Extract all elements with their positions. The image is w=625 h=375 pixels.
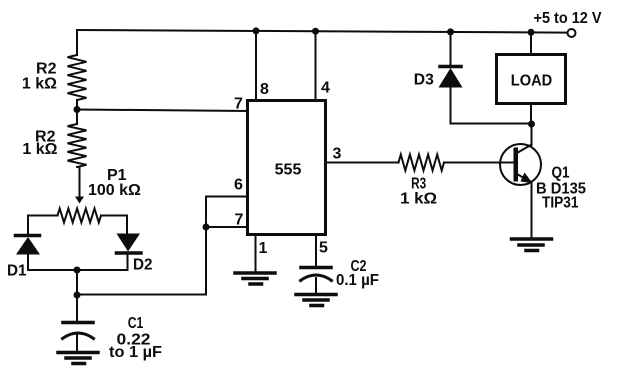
wire P1 left lead — [28, 216, 58, 235]
svg-text:100 kΩ: 100 kΩ — [88, 182, 141, 199]
wire diode bus to C1 node — [76, 270, 78, 295]
svg-text:1 kΩ: 1 kΩ — [22, 76, 57, 93]
wire pin 7 to R2 junction — [77, 110, 248, 112]
diode D2 (pointing down, cathode bar bottom) — [117, 234, 142, 271]
diode D3 (pointing up, cathode bar top) — [439, 67, 463, 88]
ground pin 1 — [235, 273, 275, 284]
node junction dot pin8 rail — [253, 27, 260, 34]
diode D1 (cathode bar top, pointing up) — [16, 236, 41, 271]
svg-text:5: 5 — [319, 240, 328, 257]
wire C1 top lead — [76, 295, 78, 321]
svg-text:7: 7 — [234, 96, 243, 113]
svg-text:to 1 µF: to 1 µF — [109, 344, 162, 361]
wire pin 7 stub — [206, 226, 246, 228]
svg-text:D2: D2 — [133, 257, 153, 274]
svg-text:3: 3 — [333, 146, 342, 163]
svg-text:1: 1 — [259, 240, 268, 257]
wire D3 bottom to collector node — [451, 88, 532, 124]
resistor R2 (upper) — [68, 55, 87, 100]
wire LOAD bottom lead — [530, 104, 532, 124]
potentiometer P1 — [58, 209, 102, 223]
wire R3 to base — [444, 162, 514, 164]
wire top supply rail — [77, 30, 567, 33]
svg-text:+5 to 12 V: +5 to 12 V — [534, 10, 602, 27]
LOAD box — [497, 55, 566, 104]
wire D1-D2 bottom bus — [28, 269, 128, 271]
svg-text:D1: D1 — [7, 263, 27, 280]
node junction dot pin4 rail — [312, 28, 319, 35]
svg-text:1 kΩ: 1 kΩ — [22, 141, 57, 158]
wiper arrow of P1 — [75, 167, 84, 204]
transistor Q1 — [500, 144, 541, 185]
wire LOAD top lead — [530, 32, 532, 53]
svg-text:8: 8 — [260, 81, 269, 98]
svg-text:C1: C1 — [128, 315, 144, 332]
node junction dot diode bus — [74, 267, 81, 274]
capacitor C2 — [301, 268, 332, 294]
wire C1 node to pins 6-7 — [77, 227, 206, 295]
node junction dot R2/R2/pin7 — [74, 106, 81, 113]
wire between R2 upper and R2 lower — [76, 100, 78, 124]
node junction dot LOAD rail — [528, 29, 535, 36]
ground C1 — [58, 353, 98, 364]
ground Q1 emitter — [512, 239, 552, 251]
svg-text:TIP31: TIP31 — [542, 195, 579, 212]
wire collector node to Q1 — [531, 124, 533, 145]
svg-text:LOAD: LOAD — [511, 73, 553, 90]
wire D3 top lead — [450, 32, 452, 65]
svg-text:4: 4 — [321, 80, 330, 97]
wire left branch top — [76, 30, 78, 55]
svg-text:555: 555 — [275, 162, 302, 179]
node junction dot D3 rail — [447, 28, 454, 35]
svg-text:6: 6 — [234, 177, 243, 194]
svg-text:D3: D3 — [414, 72, 434, 89]
resistor R2 (lower) — [68, 124, 87, 167]
capacitor C1 — [63, 323, 94, 352]
resistor R3 — [399, 155, 445, 171]
IC U1 555 timer body — [248, 101, 326, 235]
wire P1 right lead — [101, 216, 127, 234]
wire pin 8 to rail — [255, 31, 257, 100]
node junction dot C1 — [74, 292, 81, 299]
svg-text:Q1: Q1 — [552, 165, 570, 182]
svg-text:7: 7 — [235, 212, 244, 229]
wire pin 4 to rail — [315, 31, 317, 100]
wire emitter to ground — [531, 183, 533, 238]
ground C2 — [296, 295, 336, 306]
wire pin 6 stub — [206, 197, 246, 228]
node junction dot pins 6-7 — [203, 224, 210, 231]
svg-text:0.1 µF: 0.1 µF — [336, 272, 379, 289]
wire pin 5 to C2 — [315, 235, 317, 266]
node +V terminal (open circle) — [568, 29, 576, 37]
wire pin 3 to R3 — [327, 162, 399, 164]
wire pin 1 to ground — [255, 235, 257, 272]
node junction dot collector — [528, 121, 535, 128]
svg-text:1 kΩ: 1 kΩ — [400, 191, 437, 208]
